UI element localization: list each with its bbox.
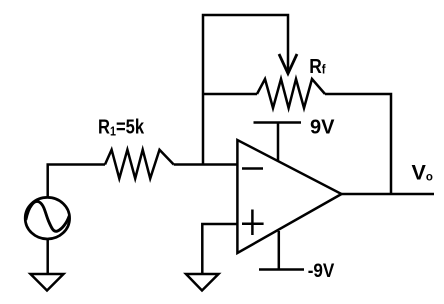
wire feedback left segment [203,93,257,96]
wire feedback right segment to output node [325,94,391,194]
wire output [342,193,435,196]
svg-text:-9V: -9V [308,260,335,281]
ground (source) [31,274,64,291]
resistor R1 [105,150,174,179]
resistor Rf [257,79,325,108]
label Rf [309,55,326,77]
svg-text:9V: 9V [310,116,335,138]
op-amp U1 [237,140,341,253]
svg-text:R1=5k: R1=5k [98,115,145,139]
label R1=5k [98,115,145,139]
wire non-inverting input to ground [202,224,237,274]
wire R1 to inverting input [174,163,238,166]
wiper arrowhead onto Rf [279,54,297,74]
op-amp inverting input minus sign [242,167,263,170]
ground (non-inverting input) [186,274,219,291]
source V1 sine generator [25,197,69,239]
op-amp non-inverting input plus sign [242,210,264,236]
power -9V supply symbol [259,231,304,270]
wire top feedback loop [203,15,288,165]
wire source to ground [46,239,49,274]
wire input from source through R1 node [48,165,105,198]
power +9V supply symbol [254,123,302,161]
label -9V [308,260,335,281]
